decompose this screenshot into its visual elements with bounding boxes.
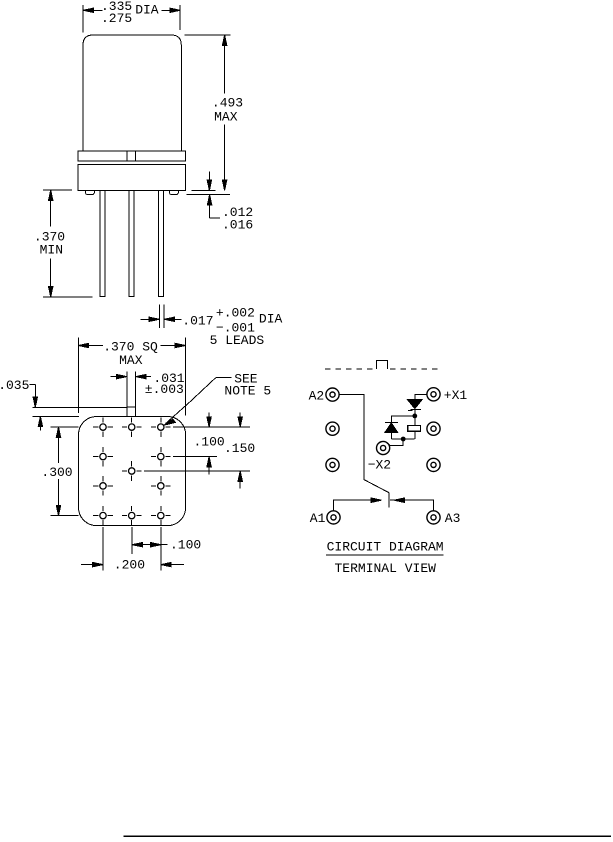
dimension .017 lead dia extension lines [159,304,164,328]
terminal A2 [326,388,339,401]
node N2 junction dot [401,437,406,442]
terminal T10 row4 middle [122,506,142,526]
terminal A3 [427,511,440,524]
terminal T8 row3 right [151,476,171,496]
lead 2 (middle) [129,190,134,296]
dimension .012/.016 lower arrow and leader [207,195,220,218]
terminal mid-right [427,422,440,435]
dashed case outline with index bump [325,360,439,368]
svg-text:.150: .150 [224,441,255,456]
left standoff foot [85,190,94,194]
dimension text .017 +.002 -.001 DIA / 5 LEADS [182,305,282,348]
svg-text:A3: A3 [445,511,461,526]
flange index tab divider [127,151,136,161]
node N1 junction dot [412,414,417,419]
terminal T2 row1 middle [122,417,142,437]
resistor R1 [408,425,421,431]
svg-text:.100: .100 [194,435,225,450]
dimension text .012 .016 [222,205,253,233]
svg-text:+.002: +.002 [216,305,255,320]
dimension .035 leader and text [30,384,38,407]
svg-text:.200: .200 [114,558,145,573]
dimension .370 SQ dimension line with arrows [78,343,185,347]
right standoff foot [169,190,178,194]
svg-text:MAX: MAX [119,353,143,368]
wire A3 to switch with arrow [390,498,434,511]
wire gate diagonal [364,480,389,493]
output switch bar [388,493,390,508]
svg-text:−X2: −X2 [368,457,391,472]
wire R1 to rail [414,431,416,439]
wire N1 to R1 [414,416,416,426]
dimension .012/.016 feet-level extension line [187,194,231,196]
diode CR1 (zener, cathode down) [407,399,422,410]
svg-text:DIA: DIA [259,312,283,327]
svg-text:.275: .275 [101,11,132,26]
dimension .100 bottom arrows [132,543,168,547]
svg-text:.017: .017 [182,313,213,328]
diode CR2 (cathode up) [385,422,398,432]
terminal-view body outline (rounded square) [79,417,186,526]
terminal +X1 [427,388,440,401]
svg-text:MIN: MIN [40,242,63,257]
terminal -X2 [377,441,390,454]
svg-text:±.003: ±.003 [145,382,184,397]
terminal T4 row2 left [93,447,113,467]
dimension text .031 ±.003 [145,371,185,397]
svg-text:NOTE 5: NOTE 5 [224,384,271,399]
wire CR2 to rail [390,432,392,439]
can flange rectangle [78,151,185,161]
wire CR1 to node N1 [414,409,416,416]
wire N2 to -X2 [387,439,403,446]
label -X2 [368,457,391,472]
wire X1 to diode CR1 [415,394,427,399]
dimension text .493 MAX [212,95,243,124]
wire A1 to switch with arrow [334,498,382,511]
index tab on body [127,407,136,416]
can base rectangle [78,165,185,191]
dimension text .370 SQ MAX [103,339,158,368]
dimension .335/.275 DIA dimension line with arrows [83,8,180,12]
svg-text:5 LEADS: 5 LEADS [210,333,265,348]
terminal low-right [427,458,440,471]
label +X1 [444,388,468,403]
svg-text:CIRCUIT DIAGRAM: CIRCUIT DIAGRAM [327,540,444,555]
dimension .370 SQ extension lines [78,337,185,415]
svg-text:.370 SQ: .370 SQ [103,339,158,354]
svg-text:TERMINAL VIEW: TERMINAL VIEW [335,561,437,576]
terminal low-left [326,458,339,471]
body-top extension line [32,415,79,417]
lead 3 (right) [159,190,164,296]
svg-text:.300: .300 [41,465,72,480]
terminal T11 row4 right [151,506,171,526]
terminal T1 row1 left [93,417,113,437]
dimension text .370 MIN [34,229,65,257]
title CIRCUIT DIAGRAM [327,540,444,555]
dimension .031 arrows [111,374,151,378]
label A1 [310,511,326,526]
svg-text:A2: A2 [309,389,325,404]
leader SEE NOTE 5 [164,378,232,426]
terminal T3 row1 right (with row-1 extension line) [151,417,250,437]
dimension .200 bottom arrows [81,562,184,566]
dimension .035 lower arrow [38,416,42,430]
dimension .100/.150 right-side arrows [207,412,243,488]
terminal mid-left [326,422,339,435]
dimension text .100 .150 [194,435,256,456]
svg-text:DIA: DIA [135,2,159,17]
wire A2 to gate [339,395,364,480]
terminal T5 row2 right (with extension line) [151,447,217,467]
dimension .300 extension lines [51,427,79,515]
dimension text .300 [41,465,72,480]
svg-text:.035: .035 [0,378,29,393]
terminal A1 [327,511,340,524]
dimension .300 dimension line with arrows [56,427,60,515]
title underline [326,554,443,556]
svg-text:.100: .100 [170,538,201,553]
terminal T7 row3 left [93,476,113,496]
can body outline (front view) [83,35,181,151]
title TERMINAL VIEW [335,561,437,576]
svg-text:MAX: MAX [214,110,238,125]
tab-top extension line [32,406,127,408]
svg-text:+X1: +X1 [444,388,468,403]
terminal T9 row4 left [93,506,113,526]
dimension text .335 .275 DIA [101,0,159,26]
dimension .493 MAX dimension line with arrows [222,35,226,190]
terminal T6 center (with extension line) [122,461,250,481]
label A3 [445,511,461,526]
dimension .370 MIN extension lines [43,190,93,297]
svg-text:.016: .016 [222,218,253,233]
dimension .012/.016 upper arrow (down to base bottom) [207,172,211,191]
lead extension lines below body [103,527,161,570]
dimension .493 MAX extension lines [185,35,231,190]
dimension .031 extension lines [127,372,136,407]
bottom page rule [124,835,612,837]
dimension .370 MIN dimension line with arrows [49,190,53,297]
svg-text:A1: A1 [310,511,326,526]
bottom rail wire [391,438,414,440]
wire N1 to diode CR2 [391,416,415,422]
dimension .017 arrows [141,317,182,321]
svg-text:.493: .493 [212,95,243,110]
label A2 [309,389,325,404]
dimension .335/.275 DIA extension lines [83,5,180,32]
lead 1 (left) [100,190,105,296]
